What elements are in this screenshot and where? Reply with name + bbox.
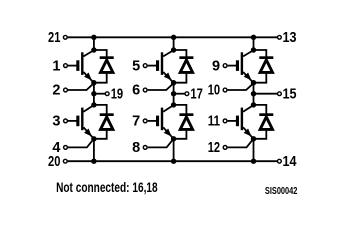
transistor T1 (IGBT): [76, 50, 94, 82]
wire: leg 2 emitter drop to bottom rail: [173, 139, 175, 161]
svg-text:1: 1: [52, 58, 60, 74]
pin 11 terminal circle: [223, 119, 227, 123]
pin 19 label: [111, 87, 124, 103]
junction: leg 1 phase-out node: [91, 91, 96, 96]
junction: leg 1 bottom rail node: [91, 159, 96, 164]
pin 14 terminal circle: [278, 159, 282, 163]
wire: pin 10 emitter lead: [228, 84, 254, 90]
pin 19 terminal circle: [105, 92, 109, 96]
wire: pin 2 emitter lead: [68, 84, 94, 90]
pin 2 terminal circle: [64, 88, 68, 92]
junction: T3 collector node: [171, 47, 176, 52]
pin 3 label: [52, 114, 60, 130]
junction: leg 2 top rail node: [171, 35, 176, 40]
pin 1 terminal circle: [64, 64, 68, 68]
svg-text:10: 10: [208, 83, 220, 99]
pin 13 label: [283, 30, 297, 46]
pin 13 terminal circle: [278, 35, 282, 39]
svg-text:11: 11: [208, 114, 220, 130]
pin 12 terminal circle: [223, 146, 227, 150]
note: not connected pins: [56, 180, 158, 195]
wire: leg 2 collector drop (top rail to T3 collector): [173, 37, 175, 50]
svg-text:6: 6: [132, 83, 140, 99]
junction: T2 collector node: [91, 102, 96, 107]
pin 5 label: [132, 58, 140, 74]
wire: pin 12 emitter lead: [228, 139, 254, 147]
pin 4 terminal circle: [64, 146, 68, 150]
note: drawing number SIS00042: [265, 186, 298, 197]
svg-text:20: 20: [48, 154, 60, 170]
transistor T5 (IGBT): [236, 50, 254, 82]
junction: leg 3 bottom rail node: [251, 159, 256, 164]
pin 8 label: [132, 140, 140, 156]
pin 10 terminal circle: [223, 88, 227, 92]
pin 10 label: [208, 83, 220, 99]
pin 2 label: [52, 83, 60, 99]
pin 12 label: [208, 140, 220, 156]
wire: pin 7 gate lead: [148, 120, 157, 122]
wire: leg 1 emitter drop to bottom rail: [93, 139, 95, 161]
wire: pin 1 gate lead: [68, 65, 77, 67]
junction: T2 emitter node: [91, 136, 96, 141]
junction: T6 emitter node: [251, 136, 256, 141]
wire: leg 3 emitter drop to bottom rail: [253, 139, 255, 161]
wire: pin 15 phase output to right edge: [254, 93, 278, 95]
pin 4 label: [52, 140, 60, 156]
svg-text:2: 2: [52, 83, 60, 99]
wire: pin 19 phase output stub: [94, 93, 105, 95]
diode D6 (freewheel, anti-parallel): [254, 105, 273, 139]
wire: bottom rail (pin 20 to pin 14, -DC bus): [68, 160, 278, 162]
wire: leg 1 midpoint link (emitter to lower collector): [93, 83, 95, 105]
wire: pin 11 gate lead: [228, 120, 237, 122]
pin 7 label: [132, 114, 140, 130]
pin 1 label: [52, 58, 60, 74]
junction: T3 emitter node: [171, 80, 176, 85]
pin 8 terminal circle: [143, 146, 147, 150]
svg-text:3: 3: [52, 114, 60, 130]
svg-text:9: 9: [212, 58, 220, 74]
pin 11 label: [208, 114, 220, 130]
wire: pin 9 gate lead: [228, 65, 237, 67]
transistor T4 (IGBT): [156, 105, 174, 139]
transistor T6 (IGBT): [236, 105, 254, 139]
svg-text:7: 7: [132, 114, 140, 130]
wire: leg 3 collector drop (top rail to T5 collector): [253, 37, 255, 50]
wire: leg 1 collector drop (top rail to T1 collector): [93, 37, 95, 50]
diode D3 (freewheel, anti-parallel): [174, 50, 193, 83]
junction: T5 collector node: [251, 47, 256, 52]
wire: leg 3 midpoint link (emitter to lower collector): [253, 83, 255, 105]
pin 5 terminal circle: [143, 64, 147, 68]
transistor T2 (IGBT): [76, 105, 94, 139]
svg-text:19: 19: [111, 87, 124, 103]
pin 7 terminal circle: [143, 119, 147, 123]
junction: T4 collector node: [171, 102, 176, 107]
junction: leg 2 phase-out node: [171, 91, 176, 96]
svg-text:4: 4: [52, 140, 60, 156]
wire: pin 6 emitter lead: [148, 84, 174, 90]
pin 17 label: [190, 87, 203, 103]
wire: pin 8 emitter lead: [148, 139, 174, 147]
transistor T3 (IGBT): [156, 50, 174, 82]
diode D1 (freewheel, anti-parallel): [94, 50, 113, 83]
junction: T1 emitter node: [91, 80, 96, 85]
svg-text:SIS00042: SIS00042: [265, 186, 298, 197]
svg-text:5: 5: [132, 58, 140, 74]
junction: leg 1 top rail node: [91, 35, 96, 40]
pin 9 label: [212, 58, 220, 74]
pin 3 terminal circle: [64, 119, 68, 123]
svg-text:12: 12: [208, 140, 220, 156]
svg-text:8: 8: [132, 140, 140, 156]
pin 15 label: [283, 87, 297, 103]
wire: pin 4 emitter lead: [68, 139, 94, 147]
pin 21 terminal circle: [63, 35, 67, 39]
pin 9 terminal circle: [223, 64, 227, 68]
pin 15 terminal circle: [278, 92, 282, 96]
junction: leg 3 top rail node: [251, 35, 256, 40]
svg-text:Not connected: 16,18: Not connected: 16,18: [56, 180, 158, 195]
junction: leg 2 bottom rail node: [171, 159, 176, 164]
diode D5 (freewheel, anti-parallel): [254, 50, 273, 83]
junction: T4 emitter node: [171, 136, 176, 141]
junction: T1 collector node: [91, 47, 96, 52]
pin 20 terminal circle: [63, 159, 67, 163]
junction: T5 emitter node: [251, 80, 256, 85]
wire: leg 2 midpoint link (emitter to lower collector): [173, 83, 175, 105]
wire: top rail (pin 21 to pin 13, +DC bus): [68, 36, 278, 38]
svg-text:21: 21: [48, 30, 60, 46]
diode D2 (freewheel, anti-parallel): [94, 105, 113, 139]
wire: pin 3 gate lead: [68, 120, 77, 122]
pin 17 terminal circle: [185, 92, 189, 96]
pin 14 label: [283, 154, 297, 170]
junction: leg 3 phase-out node: [251, 91, 256, 96]
pin 21 label: [48, 30, 60, 46]
pin 20 label: [48, 154, 60, 170]
diode D4 (freewheel, anti-parallel): [174, 105, 193, 139]
pin 6 terminal circle: [143, 88, 147, 92]
svg-text:17: 17: [190, 87, 203, 103]
pin 6 label: [132, 83, 140, 99]
svg-text:14: 14: [283, 154, 297, 170]
wire: pin 5 gate lead: [148, 65, 157, 67]
svg-text:15: 15: [283, 87, 297, 103]
junction: T6 collector node: [251, 102, 256, 107]
wire: pin 17 phase output stub: [174, 93, 185, 95]
svg-text:13: 13: [283, 30, 297, 46]
